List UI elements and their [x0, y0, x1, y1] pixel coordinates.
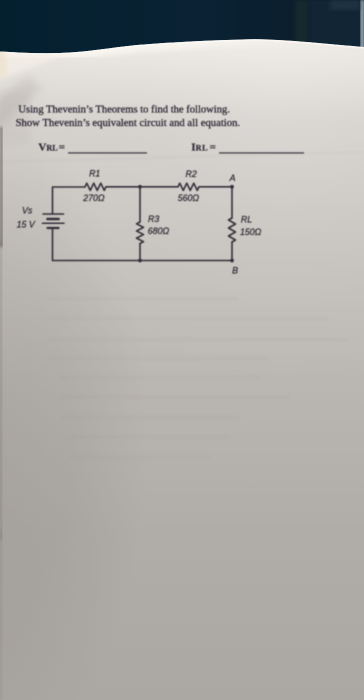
wire bottom: node B to battery - [53, 229, 233, 261]
label RL [241, 215, 252, 225]
svg-text:Vs: Vs [22, 206, 33, 216]
battery Vs plates [43, 214, 65, 228]
node B junction dot [230, 259, 234, 263]
value 680Ω [148, 226, 170, 236]
resistor R1 [85, 183, 106, 190]
svg-text:R1: R1 [89, 169, 100, 179]
highlight along folded top edge [0, 42, 364, 56]
wire: R3 junction to R2 [140, 186, 178, 188]
ghost show-through lines [48, 297, 348, 459]
svg-text:RL: RL [241, 215, 252, 225]
wire: R3 branch top [139, 187, 141, 222]
label R1 [89, 169, 100, 179]
problem statement line 2 [16, 118, 241, 129]
blurred vertical band on wall [310, 0, 364, 60]
svg-text:Using Thevenin’s Theorems to f: Using Thevenin’s Theorems to find the fo… [18, 105, 230, 116]
svg-text:680Ω: 680Ω [148, 226, 170, 236]
label IRL= [191, 141, 216, 153]
bright upper right area [0, 36, 364, 436]
wire: RL to node B [231, 242, 233, 261]
backdrop wall [0, 0, 364, 64]
resistor R2 [178, 183, 199, 190]
svg-text:A: A [229, 173, 236, 183]
svg-text:B: B [232, 266, 238, 276]
svg-text:IRL=: IRL= [191, 141, 216, 153]
value 270Ω [82, 193, 105, 203]
label node B [232, 266, 238, 276]
bright left facet of fold [0, 52, 70, 80]
light strip at far right of wall [361, 0, 364, 50]
label R3 [148, 214, 159, 224]
label R2 [185, 169, 196, 179]
thin bright crest line along fold [0, 40, 364, 54]
wire: R2 to node A [199, 186, 232, 188]
label VRL= [38, 141, 65, 153]
node A junction dot [230, 185, 234, 189]
soft shadow under top-left fold [0, 76, 42, 138]
label node A [229, 173, 236, 183]
wire: node A down to RL [231, 187, 233, 218]
warm corner highlight top-left [0, 48, 7, 78]
svg-text:150Ω: 150Ω [240, 227, 262, 237]
problem statement line 1 [18, 105, 230, 116]
svg-text:15 V: 15 V [17, 219, 36, 229]
left edge dark vignette [0, 0, 1, 1]
svg-text:R2: R2 [185, 169, 196, 179]
wire top-left: battery + to R1 [53, 187, 86, 214]
dark paper left edge line [0, 127, 3, 247]
resistor R3 [137, 222, 144, 244]
svg-text:270Ω: 270Ω [82, 193, 105, 203]
resistor RL [229, 218, 236, 242]
svg-text:Show Thevenin’s equivalent cir: Show Thevenin’s equivalent circuit and a… [16, 118, 241, 129]
svg-text:VRL=: VRL= [38, 141, 65, 153]
faint crease across [0, 152, 364, 162]
svg-text:560Ω: 560Ω [178, 193, 200, 203]
svg-text:R3: R3 [148, 214, 159, 224]
value 150Ω [240, 227, 262, 237]
junction dot R3 top [138, 185, 142, 189]
value 560Ω [178, 193, 200, 203]
wire: R3 branch bottom [139, 244, 141, 261]
blank line for IRL answer [219, 152, 304, 153]
value 15 V [17, 219, 36, 229]
label Vs [22, 206, 33, 216]
junction dot R3 bottom [138, 259, 142, 263]
blank line for VRL answer [68, 152, 147, 153]
wire: R1 to R3 top junction [106, 186, 140, 188]
